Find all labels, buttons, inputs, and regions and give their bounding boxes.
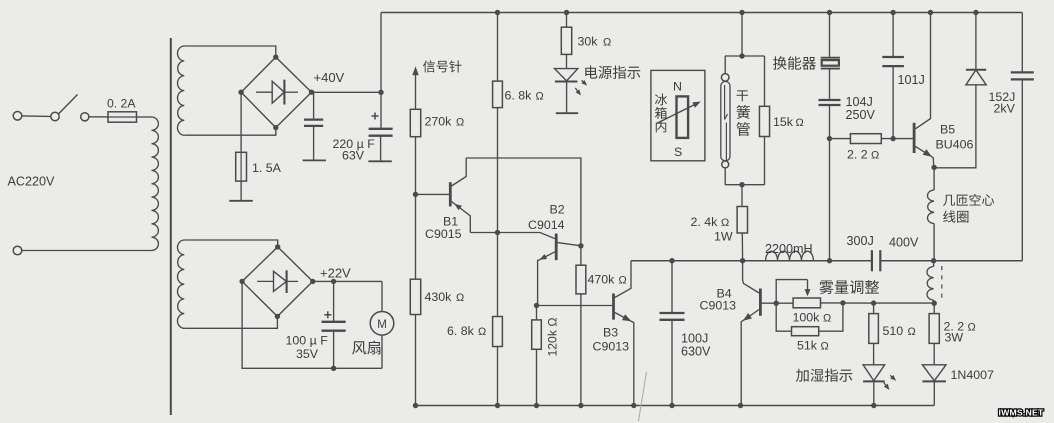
label 30k	[578, 35, 612, 49]
capacitor 152J 2kV	[1011, 72, 1034, 79]
svg-text:1W: 1W	[714, 230, 733, 244]
oscillator rail	[631, 260, 1022, 262]
svg-text:630V: 630V	[681, 345, 711, 359]
label 35V	[296, 347, 319, 361]
capacitor 300J 400V	[872, 250, 880, 271]
svg-text:Ω: Ω	[456, 292, 464, 304]
transistor B5 BU406	[914, 114, 934, 167]
fuse 1.5A	[236, 152, 247, 181]
junction node B5 emitter	[931, 165, 936, 170]
wire +40V	[312, 91, 382, 93]
junction	[564, 10, 569, 15]
label B2	[550, 203, 565, 217]
svg-text:104J: 104J	[846, 95, 873, 109]
signal pin arrow	[412, 66, 418, 109]
label inside fridge	[655, 93, 667, 132]
svg-text:51k: 51k	[797, 339, 818, 353]
label B3	[603, 326, 618, 340]
resistor 30k	[561, 13, 571, 69]
junction	[840, 300, 845, 305]
label 6.8k lower	[447, 324, 486, 338]
junction	[827, 10, 832, 15]
wire base rail	[537, 305, 613, 307]
junction	[331, 366, 336, 371]
junction	[928, 10, 933, 15]
wire	[380, 13, 382, 129]
svg-text:C9014: C9014	[528, 218, 565, 232]
inductor air-core feedback coil	[927, 167, 934, 260]
label 100k	[793, 311, 832, 325]
transformer core	[170, 38, 172, 415]
svg-text:B5: B5	[940, 123, 955, 137]
junction	[890, 10, 895, 15]
label 100J	[681, 332, 708, 346]
label reed switch	[736, 90, 750, 136]
svg-text:Ω: Ω	[968, 322, 976, 334]
label 2200mH	[765, 242, 813, 256]
svg-text:6. 8k: 6. 8k	[505, 89, 533, 103]
svg-text:100k: 100k	[793, 311, 821, 325]
svg-text:270k: 270k	[425, 115, 453, 129]
label power indicator	[585, 66, 640, 79]
label coil line2	[943, 210, 968, 222]
svg-text:Ω: Ω	[603, 37, 611, 49]
svg-text:470k: 470k	[588, 273, 616, 287]
label mist adjust	[819, 280, 879, 294]
wire	[725, 55, 765, 57]
motor M fan	[370, 281, 394, 368]
wire	[184, 240, 277, 247]
junction	[495, 403, 500, 408]
svg-text:Ω: Ω	[456, 117, 464, 129]
svg-text:510: 510	[883, 324, 904, 338]
svg-text:Ω: Ω	[721, 217, 729, 229]
junction node B4 base	[774, 301, 779, 306]
wire	[184, 316, 277, 328]
label fan	[352, 340, 380, 354]
junction	[534, 403, 539, 408]
svg-text:Ω: Ω	[871, 150, 879, 162]
label coil line1	[943, 194, 994, 206]
svg-text:Ω: Ω	[619, 275, 627, 287]
top supply rail	[381, 12, 1022, 14]
label +22V	[320, 266, 351, 281]
label 101J	[898, 73, 925, 87]
coupling dashed line	[941, 266, 943, 300]
wire	[829, 105, 831, 260]
right edge wire	[1021, 13, 1023, 261]
fridge box	[651, 70, 705, 160]
wire	[415, 137, 417, 280]
resistor 470k	[576, 265, 586, 294]
resistor 510	[869, 303, 879, 365]
wire	[725, 184, 765, 186]
svg-text:Ω: Ω	[908, 326, 916, 338]
label C9015	[425, 227, 462, 241]
label transducer	[773, 56, 816, 69]
capacitor 100uF 35V	[322, 281, 346, 368]
junction	[273, 54, 278, 59]
junction node B2 collector	[578, 243, 583, 248]
svg-text:100J: 100J	[681, 332, 708, 346]
resistor 2.2 ohm	[830, 134, 913, 144]
label 63V	[342, 149, 365, 163]
capacitor 104J 250V	[819, 100, 841, 105]
LED humidify indicator	[863, 365, 896, 406]
inductor 2200mH	[766, 251, 814, 261]
svg-text:S: S	[674, 145, 682, 159]
svg-text:+22V: +22V	[320, 266, 351, 281]
wire	[580, 246, 582, 406]
label 2.2 3W a	[944, 320, 976, 334]
label 2.2 ohm	[847, 148, 879, 162]
svg-text:C9013: C9013	[700, 299, 737, 313]
svg-text:3W: 3W	[945, 331, 964, 345]
label C9013	[700, 299, 737, 313]
bridge rectifier 1	[241, 57, 311, 128]
wire	[137, 116, 152, 118]
svg-text:Ω: Ω	[536, 91, 544, 103]
fuse 0.2A	[108, 112, 137, 122]
wire	[240, 181, 242, 201]
capacitor 101J	[882, 13, 904, 139]
capacitor 100J 630V	[660, 261, 685, 406]
label AC220V	[8, 175, 56, 189]
resistor 2.4k 1W	[737, 185, 747, 261]
svg-text:300J: 300J	[847, 234, 874, 248]
junction	[932, 301, 937, 306]
junction	[669, 403, 674, 408]
wire	[497, 13, 499, 82]
label 220uF	[333, 137, 376, 151]
wire	[22, 250, 152, 252]
wire	[415, 315, 417, 406]
svg-text:C9015: C9015	[425, 227, 462, 241]
junction	[275, 244, 280, 249]
junction	[739, 53, 744, 58]
label B5	[940, 123, 955, 137]
switch S1	[51, 95, 89, 121]
wire	[843, 302, 934, 304]
wire +22V	[313, 280, 382, 282]
label C9014	[528, 218, 565, 232]
label 104J	[846, 95, 873, 109]
transformer secondary lower	[177, 240, 184, 328]
label 0.2A	[107, 97, 136, 111]
LED power indicator	[555, 69, 588, 114]
diode D1	[934, 13, 986, 168]
svg-text:Ω: Ω	[796, 117, 804, 129]
magnet arrow	[657, 102, 701, 124]
transformer secondary upper	[177, 46, 184, 135]
inductor coupled winding	[927, 261, 934, 304]
svg-text:Ω: Ω	[823, 313, 831, 325]
label B4	[717, 287, 732, 301]
label 300J	[847, 234, 874, 248]
wire	[184, 46, 275, 57]
junction	[275, 314, 280, 319]
label 2.4k	[691, 215, 730, 229]
svg-text:2kV: 2kV	[994, 102, 1016, 116]
svg-text:6. 8k: 6. 8k	[447, 324, 475, 338]
label 510	[883, 324, 916, 338]
svg-text:2. 2: 2. 2	[847, 148, 868, 162]
svg-text:Ω: Ω	[821, 341, 829, 353]
svg-text:IWMS.NET: IWMS.NET	[998, 408, 1044, 418]
AC terminal upper	[13, 112, 22, 121]
svg-text:250V: 250V	[846, 108, 876, 122]
junction	[669, 258, 674, 263]
resistor 6.8k upper	[493, 81, 503, 108]
svg-text:430k: 430k	[425, 290, 453, 304]
label B1	[443, 215, 458, 229]
svg-text:BU406: BU406	[936, 138, 974, 152]
junction node B5 base feed	[827, 136, 832, 141]
junction	[631, 403, 636, 408]
wire	[742, 261, 744, 280]
svg-text:B3: B3	[603, 326, 618, 340]
junction	[827, 258, 832, 263]
wire	[184, 128, 275, 136]
svg-text:2200mH: 2200mH	[765, 242, 813, 256]
junction	[331, 279, 336, 284]
svg-text:B2: B2	[550, 203, 565, 217]
junction	[413, 403, 418, 408]
potentiometer 100k	[776, 280, 843, 308]
transformer primary winding	[152, 117, 159, 251]
junction node B1 base	[413, 192, 418, 197]
bottom rail	[415, 405, 934, 407]
junction	[578, 403, 583, 408]
wire	[829, 13, 831, 58]
label S pole	[674, 145, 682, 159]
svg-text:1N4007: 1N4007	[951, 368, 995, 382]
label 1W	[714, 230, 733, 244]
svg-text:400V: 400V	[889, 236, 919, 250]
wire	[741, 13, 743, 57]
svg-text:Ω: Ω	[478, 326, 486, 338]
svg-text:C9013: C9013	[593, 340, 630, 354]
junction	[973, 10, 978, 15]
label 430k	[425, 290, 465, 304]
label 250V	[846, 108, 876, 122]
svg-text:N: N	[673, 80, 682, 94]
transistor B4 C9013	[741, 280, 776, 406]
transistor B3 C9013	[614, 261, 634, 406]
label 2kV	[994, 102, 1016, 116]
transducer	[821, 58, 840, 69]
junction node oscillator	[740, 258, 745, 263]
junction	[309, 90, 314, 95]
label 470k	[588, 273, 627, 287]
junction node B2 emitter	[534, 303, 539, 308]
watermark	[998, 408, 1044, 418]
resistor 2.2 3W	[929, 303, 939, 364]
junction	[495, 230, 500, 235]
junction	[739, 10, 744, 15]
junction	[871, 403, 876, 408]
junction	[239, 279, 244, 284]
svg-text:+40V: +40V	[314, 70, 345, 85]
AC terminal lower	[13, 246, 22, 255]
junction	[871, 300, 876, 305]
svg-text:2. 4k: 2. 4k	[691, 215, 719, 229]
diode 1N4007	[922, 365, 946, 406]
junction	[310, 279, 315, 284]
wire	[497, 347, 499, 406]
resistor 430k	[410, 279, 420, 314]
wire	[240, 92, 242, 152]
wire collector rail	[466, 158, 581, 246]
capacitor C1	[303, 92, 326, 160]
label 152J	[989, 90, 1016, 104]
label 3W	[945, 331, 964, 345]
resistor 120k	[532, 320, 542, 349]
resistor 270k	[410, 109, 420, 136]
label 6.8k upper	[505, 89, 544, 103]
capacitor 220uF 63V	[368, 113, 392, 162]
reed switch	[721, 56, 730, 185]
wire	[89, 116, 108, 118]
label 100uF	[286, 334, 329, 348]
magnet bar	[677, 96, 689, 137]
junction	[495, 10, 500, 15]
resistor 15k	[759, 56, 769, 185]
wire	[536, 306, 538, 406]
svg-text:100 µ F: 100 µ F	[286, 334, 329, 348]
transistor B2 C9014	[538, 234, 581, 306]
label 51k	[797, 339, 829, 353]
label 400V	[889, 236, 919, 250]
junction	[273, 125, 278, 130]
label signal pin	[423, 60, 462, 72]
ground bar	[229, 200, 253, 202]
label humidify indicator	[796, 369, 852, 382]
label 1.5A	[252, 161, 282, 175]
scratch artifact	[639, 372, 647, 421]
label BU406	[936, 138, 974, 152]
wire	[497, 108, 499, 317]
wire	[22, 115, 51, 118]
svg-text:30k: 30k	[578, 35, 599, 49]
junction	[738, 403, 743, 408]
svg-text:120k Ω: 120k Ω	[546, 318, 560, 357]
label 630V	[681, 345, 711, 359]
svg-text:35V: 35V	[296, 347, 319, 361]
wire	[930, 13, 932, 115]
svg-text:63V: 63V	[342, 149, 365, 163]
junction	[890, 136, 895, 141]
label C9013	[593, 340, 630, 354]
wire emitter rail	[470, 233, 555, 239]
label N pole	[673, 80, 682, 94]
junction	[931, 258, 936, 263]
resistor 6.8k lower	[493, 317, 503, 347]
label +40V	[314, 70, 345, 85]
label 15k	[773, 115, 804, 129]
transistor B1 C9015	[416, 158, 471, 233]
wire	[829, 69, 831, 100]
bridge rectifier 2	[242, 247, 313, 317]
junction node +40V	[378, 90, 383, 95]
svg-text:0. 2A: 0. 2A	[107, 97, 136, 111]
wire	[242, 281, 382, 368]
svg-text:AC220V: AC220V	[8, 175, 56, 189]
label 120k	[546, 318, 560, 357]
svg-text:101J: 101J	[898, 73, 925, 87]
svg-text:1. 5A: 1. 5A	[252, 161, 282, 175]
label 270k	[425, 115, 465, 129]
svg-text:15k: 15k	[773, 115, 794, 129]
label 1N4007	[951, 368, 995, 382]
resistor 51k	[776, 303, 843, 336]
svg-text:M: M	[377, 319, 387, 331]
junction	[238, 90, 243, 95]
junction	[739, 182, 744, 187]
